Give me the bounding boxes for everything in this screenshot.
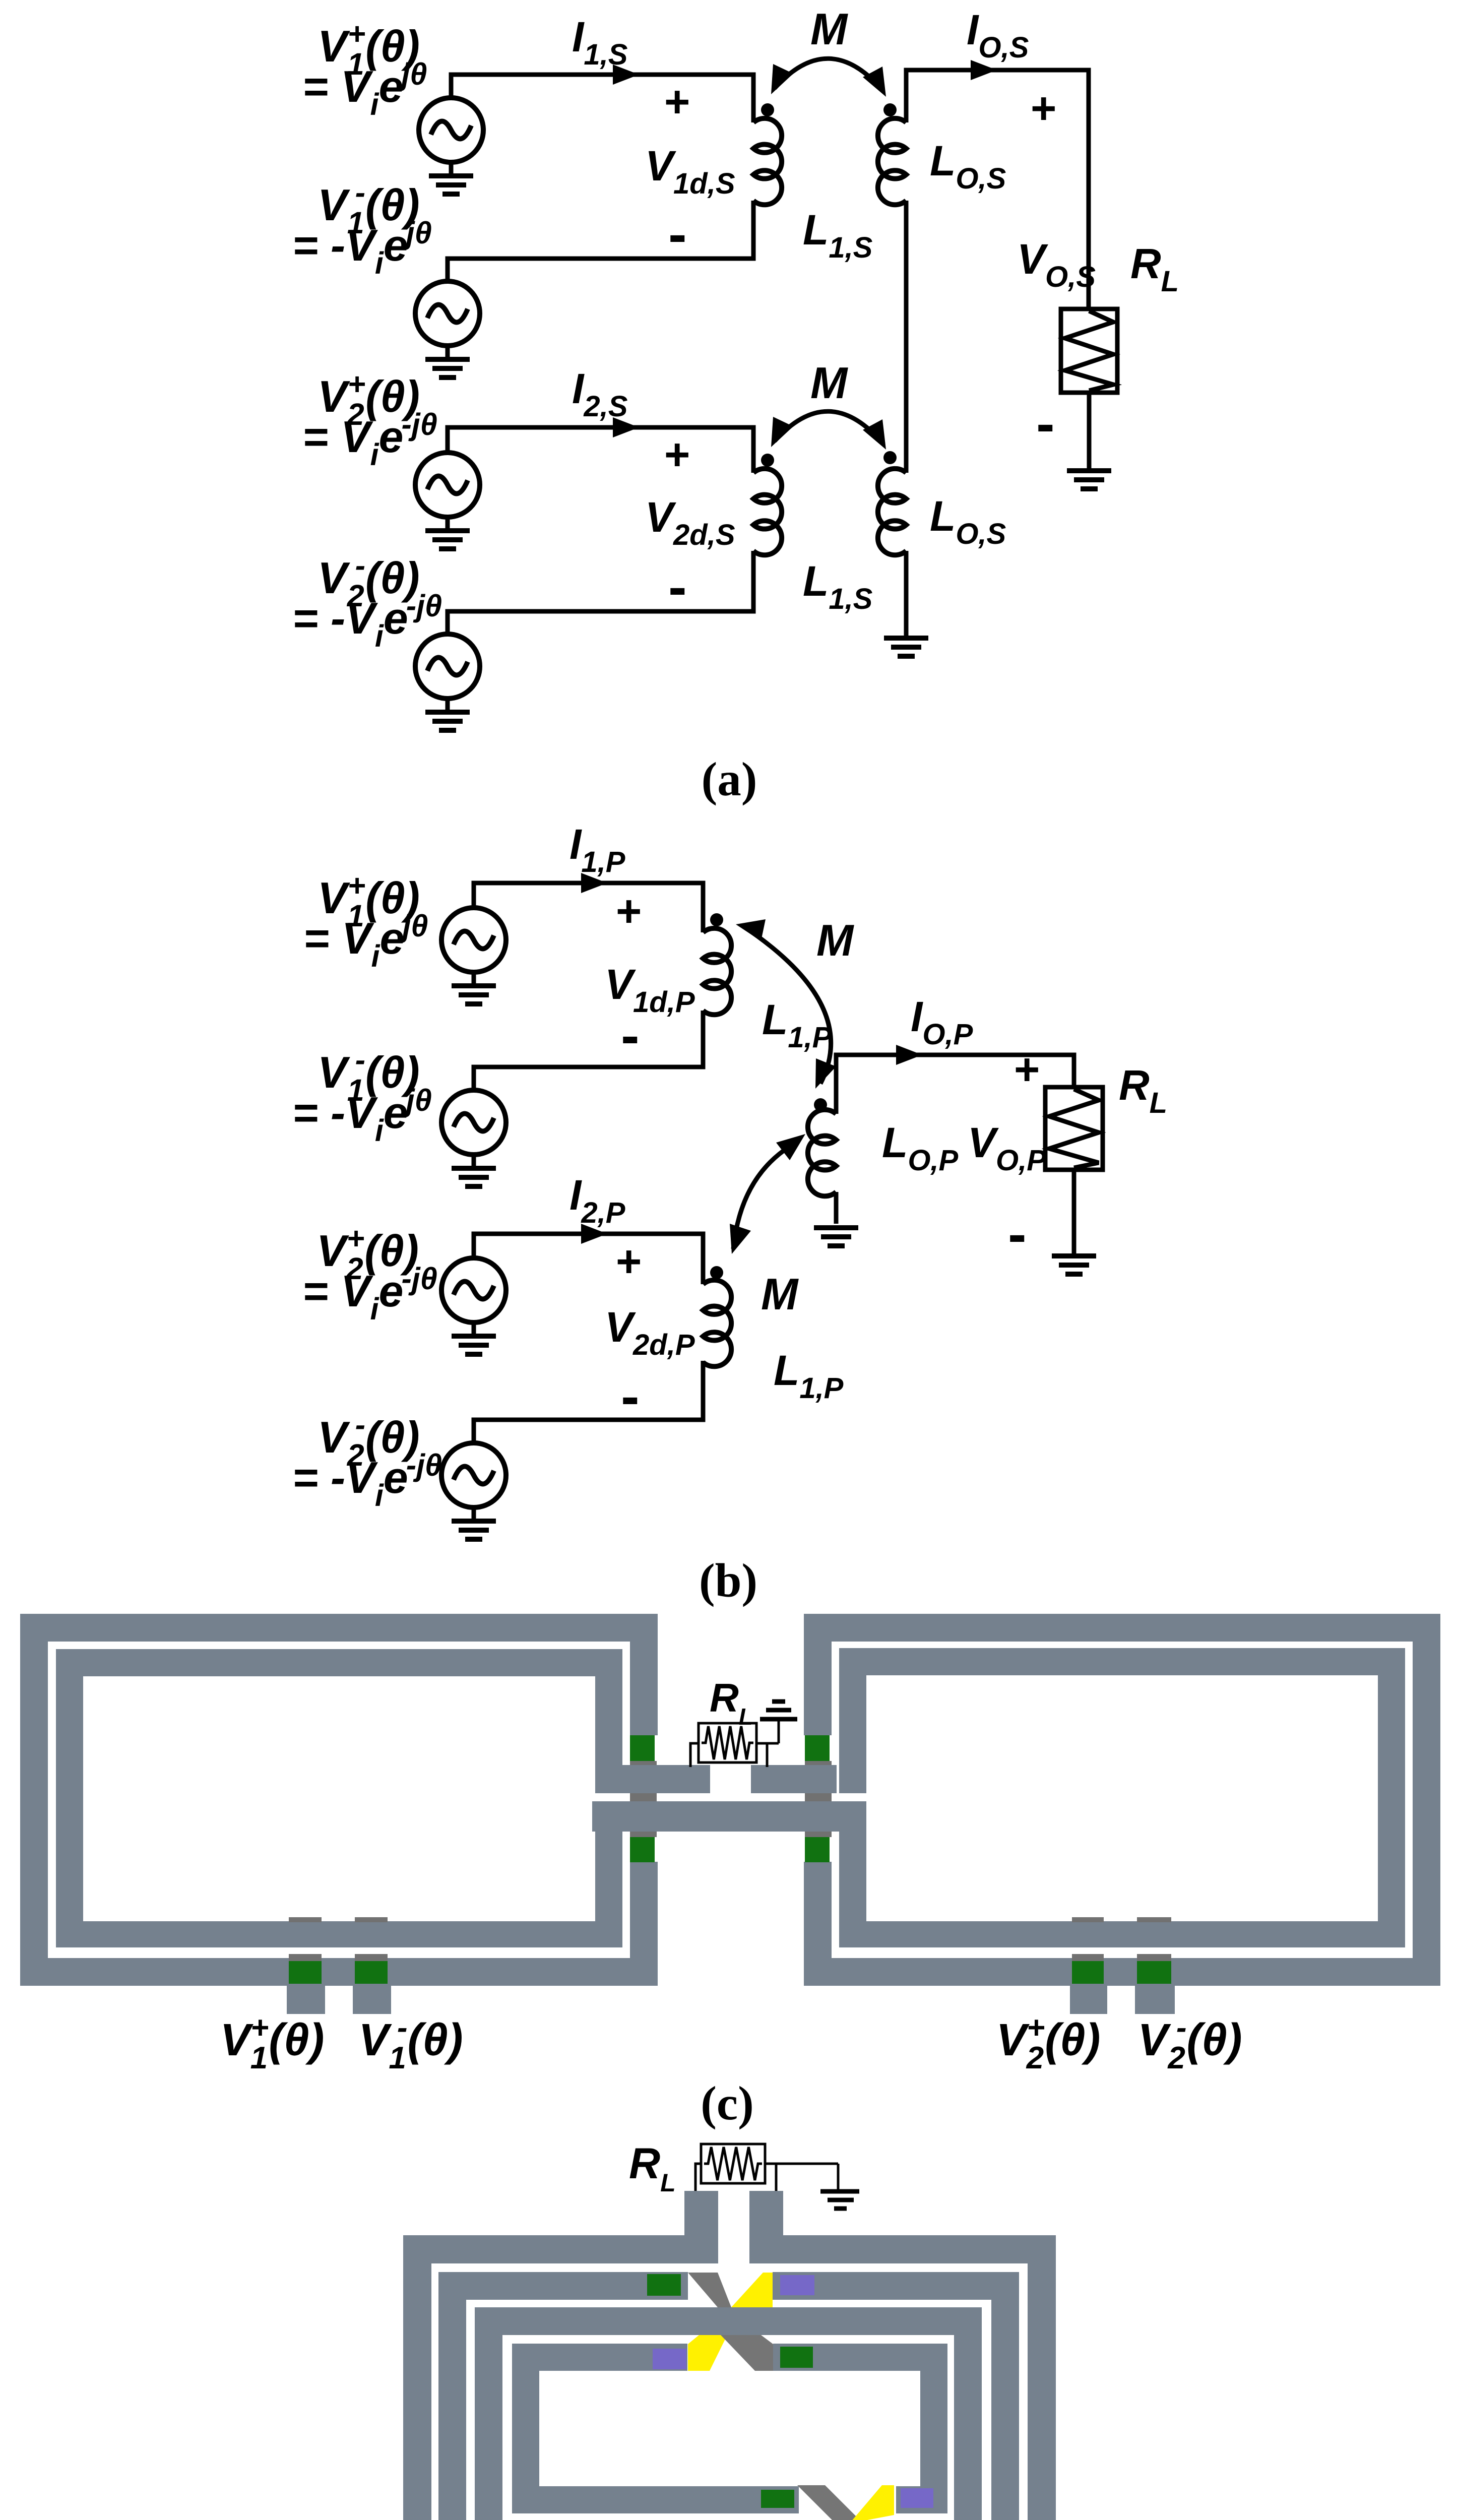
- wire between the two secondaries LO,S: [904, 201, 909, 473]
- crossover X-T dark underpass upper (ring2-left down) (d): [688, 2273, 731, 2307]
- ring 2 top edge segment (d): [438, 2272, 688, 2300]
- resistor RL (b): [1045, 1087, 1103, 1170]
- voltage source V2- value label: [292, 589, 442, 653]
- green contact of port V2+ (c): [1072, 1961, 1104, 1984]
- purple bridge pad on ring2 top right of crossover (d): [780, 2275, 814, 2295]
- polarity + of VO,P: [1014, 1044, 1040, 1094]
- svg-text:M: M: [761, 1269, 799, 1319]
- label LO,S (secondary 1): [930, 137, 1006, 195]
- label I2,P: [569, 1171, 625, 1229]
- green contact on ring4 bottom left (d): [761, 2490, 794, 2508]
- wire RL to ground: [1087, 393, 1092, 469]
- label M2 (b): [761, 1269, 799, 1319]
- phase dot of L1,S primary 1: [761, 103, 774, 116]
- inductor L1,S (primary 2): [753, 469, 782, 555]
- output junction wire to RL (b): [836, 1055, 1074, 1114]
- via strip between bars on left-loop right edge (c): [630, 1793, 657, 1801]
- current arrow I2,S: [613, 417, 639, 437]
- ground below V2+ (b): [452, 1322, 496, 1354]
- svg-text:+: +: [616, 886, 642, 936]
- inductor L1,P (primary 2): [703, 1280, 731, 1366]
- voltage source V2- label (b): [318, 1408, 420, 1472]
- crossover X-A yellow bridge upper (up to ring4-right corner) (d): [851, 2485, 894, 2520]
- mutual coupling arrow M1 (b): [736, 919, 836, 1089]
- green contact of port V1+ (c): [289, 1961, 322, 1984]
- port stub V1+ (c): [287, 1986, 325, 2014]
- svg-text:+: +: [664, 429, 690, 479]
- inductor L1,P (primary 1): [703, 928, 731, 1015]
- inductor LO,P (shared secondary): [808, 1110, 836, 1196]
- ground below RL (a): [1067, 471, 1111, 489]
- voltage source V1- label: [318, 175, 420, 240]
- label IO,P: [911, 993, 973, 1051]
- voltage source V2+ label: [318, 367, 420, 431]
- label V1d,S: [645, 142, 735, 200]
- label I1,S: [572, 13, 628, 71]
- label V2d,P: [605, 1303, 695, 1361]
- voltage source V2- label: [318, 548, 420, 613]
- svg-text:(b): (b): [699, 1554, 757, 1607]
- voltage source V1+ (b): [441, 908, 506, 972]
- label V2+(8) port (c): [996, 2010, 1101, 2075]
- ground below V2- source: [425, 699, 470, 730]
- svg-text:+: +: [1014, 1044, 1040, 1094]
- port stub V2+ (c): [1070, 1986, 1107, 2014]
- mutual coupling arrow M (bottom transformer): [771, 411, 886, 450]
- label M (bottom transformer): [810, 358, 848, 408]
- green contact on ring4 top right (d): [780, 2347, 813, 2368]
- underpass tab of port V2- on inner ring (c): [1137, 1917, 1171, 1922]
- voltage source V2- value label (b): [292, 1448, 442, 1513]
- label LO,P: [882, 1119, 959, 1177]
- inductor LO,S (secondary 2): [878, 469, 906, 555]
- label V1+(8) port (c): [220, 2010, 325, 2075]
- crossover X-A dark underpass upper (ring4-left end down) (d): [797, 2485, 862, 2520]
- wire L1,P bottom to V1- (b): [474, 1011, 703, 1090]
- voltage source V2+ value label (b): [302, 1262, 437, 1326]
- voltage source V1- (AC source): [415, 281, 480, 346]
- crossover X-T yellow bridge upper (up to ring2-right) (d): [731, 2273, 773, 2307]
- voltage source V1- value label: [292, 216, 432, 280]
- voltage source V2+ label (b): [316, 1221, 419, 1286]
- via tab of port V2- across gap (c): [1137, 1954, 1171, 1961]
- polarity + of VO,S: [1031, 83, 1056, 133]
- crossover X-T dark underpass lower (down to ring4-right) (d): [721, 2335, 773, 2371]
- resistor RL (c): [699, 1723, 756, 1762]
- label V2-(8) port (c): [1137, 2010, 1242, 2075]
- ring 4 right edge (d): [920, 2344, 947, 2513]
- label L1,S (primary 1): [803, 206, 873, 264]
- wire V1+ to L1,P primary 1: [474, 883, 703, 932]
- polarity - of VO,S: [1036, 393, 1055, 455]
- crossover X-T yellow bridge lower (ring4-left up) (d): [688, 2335, 727, 2371]
- lower green contact on left-loop right edge (c): [630, 1837, 655, 1862]
- ground below V1- source: [425, 346, 470, 377]
- ring 1 right edge (d): [1028, 2235, 1056, 2520]
- current arrow I1,P: [581, 873, 607, 893]
- ground below V1+ source: [429, 162, 473, 194]
- svg-text:M: M: [810, 358, 848, 408]
- label L1,S (primary 2): [803, 557, 873, 615]
- upper green contact on right-loop left edge (c): [805, 1735, 830, 1761]
- label RL (d): [629, 2139, 676, 2197]
- current arrow I2,P: [581, 1224, 607, 1244]
- label L1,P (primary 2): [774, 1347, 844, 1405]
- inductor LO,S (secondary 1): [878, 118, 906, 205]
- underpass tab of port V1- on inner ring (c): [355, 1917, 388, 1922]
- voltage source V2- (AC source): [415, 634, 480, 699]
- voltage source V1- (b): [441, 1090, 506, 1155]
- svg-text:(c): (c): [701, 2076, 753, 2130]
- via strip between bars on right-loop left edge (c): [805, 1793, 832, 1801]
- polarity - of V2d,P: [621, 1365, 640, 1427]
- polarity - of VO,P: [1008, 1203, 1027, 1265]
- caption (a): [702, 752, 757, 806]
- label RL (c): [710, 1675, 753, 1730]
- ring 4 left edge (d): [512, 2344, 539, 2513]
- ring 2 left edge (d): [438, 2272, 466, 2520]
- label I2,S: [572, 365, 628, 423]
- label RL (a): [1130, 240, 1179, 298]
- current arrow IO,S: [971, 60, 997, 80]
- resistor RL (d): [701, 2144, 765, 2183]
- wire secondary 2 to ground: [904, 551, 909, 636]
- svg-text:+: +: [616, 1236, 642, 1286]
- upper center bar left segment (c): [595, 1765, 710, 1793]
- phase dot of LO,S secondary 2: [883, 451, 897, 464]
- green contact on ring2 top left of crossover (d): [647, 2274, 681, 2296]
- svg-text:M: M: [816, 915, 854, 965]
- phase dot of L1,P primary 2: [710, 1266, 723, 1279]
- subfigure (b): parallel power-combining transformer schematic: [0, 0, 1, 1]
- upper green contact on left-loop right edge (c): [630, 1735, 655, 1761]
- ground below V1+ (b): [452, 972, 496, 1004]
- polarity - of V1d,P: [621, 1004, 640, 1066]
- voltage source V2+ (AC source): [415, 453, 480, 517]
- polarity + of V2d,P: [616, 1236, 642, 1286]
- phase dot of L1,P primary 1: [710, 913, 723, 926]
- RL left lead (d): [695, 2164, 701, 2191]
- via strip above upper bar on right-loop left edge (c): [805, 1761, 832, 1765]
- right loop inner ring (c): [839, 1648, 1405, 1947]
- label V2d,S: [645, 493, 735, 551]
- ring 1 top edge segment (d): [749, 2235, 1056, 2263]
- ground below secondary 2: [884, 638, 928, 656]
- ring 3 left edge (d): [475, 2307, 502, 2520]
- subfigure (c): planar layout of series combiner - two coupled loops: [0, 0, 1, 1]
- polarity - of V2d,S: [668, 556, 687, 618]
- ground for RL (c) - inverted plates: [760, 1702, 797, 1719]
- ring 2 top edge segment (d): [773, 2272, 1019, 2300]
- label M (top transformer): [810, 4, 848, 54]
- wire L1,S bottom to V1- source: [448, 201, 753, 281]
- label M1 (b): [816, 915, 854, 965]
- mutual coupling arrow M2 (b): [730, 1134, 805, 1254]
- polarity + of V2d,S: [664, 429, 690, 479]
- voltage source V1+ value label = Vi e^j8: [302, 57, 427, 121]
- inductor L1,S (primary 1): [753, 118, 782, 205]
- label V1d,P: [605, 961, 695, 1019]
- voltage source V1- value label (b): [292, 1083, 432, 1148]
- phase dot of LO,P: [814, 1098, 827, 1111]
- via tab of port V2+ across gap (c): [1072, 1954, 1104, 1961]
- ring 3 right edge (d): [954, 2307, 982, 2520]
- svg-text:(a): (a): [702, 752, 757, 806]
- label RL (b): [1119, 1061, 1167, 1119]
- svg-text:-: -: [668, 556, 687, 618]
- left loop outer ring (c): [20, 1614, 658, 1986]
- wire L1,S primary 2 bottom to V2- source: [448, 551, 753, 634]
- wire LO,P to ground: [834, 1192, 839, 1224]
- ring 4 top edge segment (d): [773, 2344, 947, 2371]
- phase dot of L1,S primary 2: [761, 454, 774, 467]
- RL right lead to stub and ground (d): [765, 2164, 838, 2191]
- label V1-(8) port (c): [358, 2010, 463, 2075]
- purple bridge pad on ring4 bottom right corner (d): [901, 2488, 933, 2508]
- lower green contact on right-loop left edge (c): [805, 1837, 830, 1862]
- wire RL to ground (b): [1072, 1170, 1076, 1253]
- ground below LO,P: [814, 1228, 858, 1246]
- via tab of port V1+ across gap (c): [289, 1954, 322, 1961]
- caption (b): [699, 1554, 757, 1607]
- green contact of port V2- (c): [1137, 1961, 1171, 1984]
- label VO,S: [1017, 235, 1096, 293]
- label IO,S: [967, 6, 1029, 64]
- caption (c): [701, 2076, 753, 2130]
- purple bridge pad on ring4 top left (d): [653, 2349, 686, 2369]
- right feed stub to RL (d): [749, 2191, 783, 2263]
- subfigure (d): planar layout of parallel combiner - interleaved transformer: [0, 0, 1, 1]
- svg-text:-: -: [621, 1004, 640, 1066]
- ground below V2- (b): [452, 1507, 496, 1539]
- ground below RL (b): [1052, 1256, 1096, 1274]
- svg-text:-: -: [668, 203, 687, 265]
- via strip below lower bar on right-loop left edge (c): [805, 1832, 832, 1837]
- port stub V1- (c): [353, 1986, 391, 2014]
- voltage source V1- label (b): [318, 1043, 420, 1107]
- ring 1 left edge (d): [403, 2235, 431, 2520]
- wire V2+ to L1,P primary 2: [474, 1234, 703, 1284]
- ring 2 right edge (d): [991, 2272, 1019, 2520]
- upper center bar right segment (c): [751, 1765, 837, 1793]
- ring 4 top edge segment (d): [512, 2344, 687, 2371]
- mutual coupling arrow M (top transformer): [771, 58, 886, 97]
- left loop inner ring (c): [56, 1649, 622, 1947]
- ring 1 top edge segment (d): [403, 2235, 718, 2263]
- label VO,P: [968, 1119, 1046, 1177]
- svg-text:+: +: [1031, 83, 1056, 133]
- right loop outer ring (c): [804, 1614, 1440, 1986]
- ground below V2+ source: [425, 517, 470, 549]
- polarity + of V1d,P: [616, 886, 642, 936]
- label L1,P (primary 1): [762, 996, 832, 1054]
- subfigure (a): series power-combining transformer schematic: [0, 0, 1, 1]
- svg-text:+: +: [664, 77, 690, 127]
- voltage source V1+ value label (b): [303, 909, 428, 973]
- port stub V2- (c): [1135, 1986, 1175, 2014]
- RL right lead wire (c): [756, 1719, 779, 1767]
- phase dot of LO,S secondary 1: [883, 103, 897, 116]
- left feed stub to RL (d): [684, 2191, 718, 2263]
- wire net V1+ to L1,S primary top: [451, 75, 753, 122]
- svg-text:-: -: [1008, 1203, 1027, 1265]
- ground below V1- (b): [452, 1155, 496, 1186]
- underpass tab of port V2+ on inner ring (c): [1072, 1917, 1104, 1922]
- current arrow IO,P: [896, 1045, 922, 1065]
- current arrow I1,S: [613, 65, 639, 85]
- via strip below lower bar on left-loop right edge (c): [630, 1832, 657, 1837]
- voltage source V2+ (b): [441, 1258, 506, 1322]
- green contact of port V1- (c): [355, 1961, 388, 1984]
- wire secondary top to RL: [906, 70, 1089, 310]
- via tab of port V1- across gap (c): [355, 1954, 388, 1961]
- voltage source V2- (b): [441, 1443, 506, 1507]
- ring 3 top edge segment (d): [475, 2307, 982, 2335]
- voltage source V1+ label (b): [318, 868, 420, 933]
- label I1,P: [569, 821, 625, 878]
- ring 4 bottom edge segment (d): [896, 2486, 947, 2513]
- resistor RL (series combiner load): [1061, 309, 1117, 393]
- voltage source V1+ label: [318, 17, 420, 81]
- via strip above upper bar on left-loop right edge (c): [630, 1761, 657, 1765]
- voltage source V1+ (AC source): [419, 98, 483, 162]
- underpass tab of port V1+ on inner ring (c): [289, 1917, 322, 1922]
- RL left lead wire (c): [690, 1743, 699, 1767]
- ring 4 bottom edge segment (d): [512, 2486, 799, 2513]
- polarity - of V1d,S: [668, 203, 687, 265]
- lower center bar (c): [592, 1801, 866, 1832]
- ground for RL (d): [820, 2191, 859, 2209]
- wire net V2+ to L1,S primary 2: [448, 427, 753, 473]
- voltage source V2+ value label: [302, 407, 437, 472]
- label LO,S (secondary 2): [930, 492, 1006, 550]
- wire L1,P primary 2 bottom to V2- (b): [474, 1361, 703, 1443]
- polarity + of V1d,S: [664, 77, 690, 127]
- svg-text:M: M: [810, 4, 848, 54]
- svg-text:-: -: [1036, 393, 1055, 455]
